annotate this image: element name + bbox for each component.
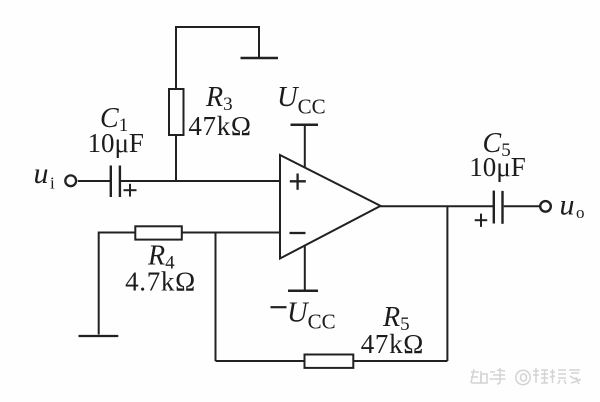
resistor R5: [305, 355, 354, 368]
resistor R4: [135, 226, 182, 239]
wire Ucc supply lead: [304, 125, 306, 168]
svg-text:10μF: 10μF: [469, 152, 526, 182]
wire R3 top to upper ground: [176, 27, 259, 89]
node ui input terminal: [65, 175, 76, 186]
wire left ground lead up to R4: [99, 233, 135, 335]
wire bottom rail to R5: [216, 360, 305, 362]
ground (top right bar): [241, 57, 279, 60]
node -Ucc supply bar: [288, 289, 318, 292]
wire R3 bottom lead: [175, 135, 177, 181]
node uo output terminal: [540, 201, 551, 212]
wire ui terminal to C1: [78, 180, 110, 182]
resistor R3: [169, 89, 184, 135]
svg-text:47kΩ: 47kΩ: [188, 111, 251, 141]
svg-text:4.7kΩ: 4.7kΩ: [125, 267, 196, 297]
watermark zhihu (drawn strokes, light grey): [471, 368, 581, 385]
wire node at minus input down to bottom feedback rail: [215, 233, 217, 362]
capacitor C5: [494, 191, 503, 224]
svg-text:47kΩ: 47kΩ: [361, 329, 424, 359]
wire R5 to right riser: [353, 360, 447, 362]
polarity + of C5: [475, 214, 488, 227]
wire -Ucc supply lead: [304, 245, 306, 290]
wire right riser up to output: [446, 206, 448, 361]
svg-text:10μF: 10μF: [87, 128, 144, 158]
wire C1 to op-amp + input: [121, 180, 280, 182]
polarity + of C1: [124, 184, 137, 197]
label -Ucc: [271, 298, 336, 334]
op-amp - input marking: [290, 232, 306, 234]
op-amp U1: [280, 155, 381, 259]
ground (bottom left bar): [79, 335, 119, 337]
wire C5 to uo terminal: [504, 205, 540, 207]
node Ucc supply bar: [291, 124, 319, 127]
wire R4 to op-amp - input: [182, 232, 280, 234]
capacitor C1: [111, 166, 120, 198]
op-amp + input marking: [290, 174, 306, 190]
wire op-amp output to C5: [381, 205, 494, 207]
